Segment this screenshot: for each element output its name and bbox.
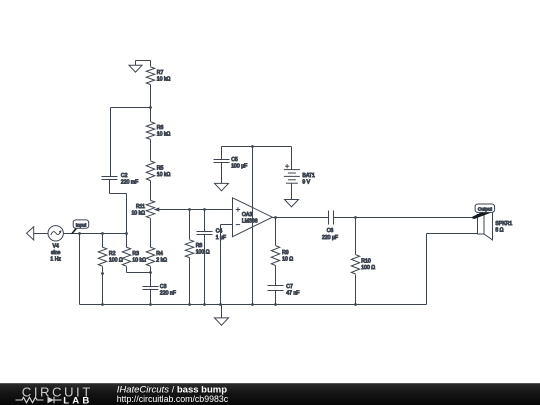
svg-text:R8: R8: [196, 243, 203, 249]
ground (below rail): [215, 305, 229, 326]
svg-text:220 nF: 220 nF: [160, 291, 176, 297]
wire speaker return: [427, 234, 478, 305]
resistor R10: [351, 218, 375, 306]
capacitor C5: [214, 147, 248, 184]
svg-text:100 Ω: 100 Ω: [196, 250, 210, 256]
node R2 bottom: [101, 303, 104, 306]
wire R7 to node: [150, 85, 152, 122]
wire top rail: [222, 146, 292, 148]
svg-text:2 kΩ: 2 kΩ: [156, 258, 167, 264]
svg-text:10 kΩ: 10 kΩ: [157, 77, 171, 83]
svg-text:C2: C2: [121, 173, 128, 179]
resistor R4: [146, 247, 167, 286]
svg-text:LAB: LAB: [63, 395, 92, 405]
svg-text:47 nF: 47 nF: [286, 291, 299, 297]
wire op-amp output: [273, 217, 329, 219]
wire C6 to R10 node: [334, 217, 356, 219]
node R8 top: [188, 208, 191, 211]
resistor R2: [98, 234, 123, 305]
svg-text:R4: R4: [156, 251, 163, 257]
wire node to C2 branch: [111, 108, 151, 177]
node - input rail: [219, 303, 222, 306]
svg-text:10 kΩ: 10 kΩ: [132, 258, 146, 264]
svg-text:SPKR1: SPKR1: [495, 221, 512, 227]
svg-text:8 Ω: 8 Ω: [495, 227, 503, 233]
svg-text:Input: Input: [76, 222, 87, 227]
resistor R3: [122, 234, 150, 273]
node op-amp V- bottom: [251, 303, 254, 306]
label Output flag: [472, 204, 494, 219]
svg-text:C6: C6: [327, 228, 334, 234]
wire R11 wiper to op-amp +: [167, 209, 233, 211]
svg-text:100 Ω: 100 Ω: [361, 265, 375, 271]
resistor R5: [146, 161, 170, 181]
speaker SPKR1: [478, 209, 513, 240]
svg-text:sine: sine: [51, 250, 61, 256]
node C3 bottom: [149, 303, 152, 306]
CircuitLab logo wordmark CIRCUIT: [22, 384, 93, 399]
svg-text:100 µF: 100 µF: [231, 164, 247, 170]
resistor R7: [146, 67, 170, 85]
node input junction: [78, 232, 81, 235]
svg-text:R6: R6: [157, 125, 164, 131]
footer url text: [117, 394, 229, 404]
ground (below BAT1): [285, 200, 299, 207]
svg-text:R7: R7: [157, 70, 164, 76]
svg-text:220 mF: 220 mF: [121, 180, 138, 186]
svg-text:220 µF: 220 µF: [322, 235, 338, 241]
voltage source V4: [48, 226, 63, 263]
capacitor C4: [197, 210, 227, 306]
footer bar: [0, 383, 540, 405]
wire op-amp power rail vertical: [252, 147, 254, 305]
svg-text:C4: C4: [216, 228, 223, 234]
CircuitLab logo LAB: [63, 395, 92, 405]
svg-text:R9: R9: [282, 250, 289, 256]
wire R5 to R11: [150, 181, 152, 201]
svg-text:R11: R11: [136, 204, 145, 210]
wire ground to R7 top: [136, 61, 151, 67]
svg-text:C7: C7: [286, 284, 293, 290]
svg-text:R10: R10: [361, 259, 371, 265]
svg-text:10 kΩ: 10 kΩ: [157, 172, 171, 178]
svg-text:100 Ω: 100 Ω: [109, 258, 123, 264]
svg-text:V4: V4: [53, 244, 59, 250]
capacitor C2: [102, 173, 139, 186]
wire op-amp - input to ground bus: [221, 225, 233, 305]
svg-text:BAT1: BAT1: [302, 173, 315, 179]
wire input junction down to rail: [79, 234, 81, 305]
svg-text:http://circuitlab.com/cb9983c: http://circuitlab.com/cb9983c: [117, 394, 229, 404]
wire to speaker: [356, 217, 478, 219]
node R3/C2 top: [125, 232, 128, 235]
node output junction: [274, 216, 277, 219]
wire bottom rail: [80, 304, 427, 306]
svg-text:R3: R3: [132, 251, 139, 257]
potentiometer R11: [131, 200, 166, 218]
svg-text:10 Ω: 10 Ω: [282, 257, 293, 263]
resistor R6: [146, 122, 170, 140]
node R10 top: [354, 216, 357, 219]
svg-text:C5: C5: [231, 157, 238, 163]
capacitor C3: [143, 284, 176, 305]
resistor R9: [271, 218, 293, 286]
wire R11 to R4: [150, 219, 152, 248]
svg-text:C3: C3: [160, 284, 167, 290]
node junction R7/R6/C2-branch: [149, 106, 152, 109]
battery BAT1: [284, 147, 315, 200]
resistor R8: [185, 210, 209, 306]
capacitor C6: [322, 211, 338, 241]
svg-text:10 kΩ: 10 kΩ: [157, 132, 171, 138]
wire C2 to input node: [110, 180, 127, 234]
svg-text:R2: R2: [109, 251, 116, 257]
svg-text:9 V: 9 V: [302, 180, 310, 186]
ground (top, above R7): [129, 61, 142, 73]
label Input flag: [71, 220, 89, 234]
svg-text:LM386: LM386: [242, 219, 258, 225]
wire input bus: [80, 233, 127, 235]
node R4/R3/C3 junction: [149, 271, 152, 274]
svg-text:Output: Output: [478, 207, 493, 212]
footer title text: [117, 384, 228, 395]
svg-text:10 kΩ: 10 kΩ: [131, 210, 145, 216]
wire R6 to R5: [150, 140, 152, 161]
op-amp OA3 LM386: [233, 198, 273, 237]
CircuitLab logo resistor-diode glyph: [16, 397, 62, 404]
node R2 top: [101, 232, 104, 235]
svg-text:OA3: OA3: [242, 212, 252, 218]
svg-text:R5: R5: [157, 165, 164, 171]
node op-amp V+ top: [251, 145, 254, 148]
capacitor C7: [268, 284, 300, 306]
node C4 top: [203, 208, 206, 211]
svg-text:1 Hz: 1 Hz: [50, 257, 61, 263]
wire V4 to input junction: [64, 233, 80, 235]
ground (below C5): [215, 183, 229, 190]
input port pin: [27, 227, 49, 240]
